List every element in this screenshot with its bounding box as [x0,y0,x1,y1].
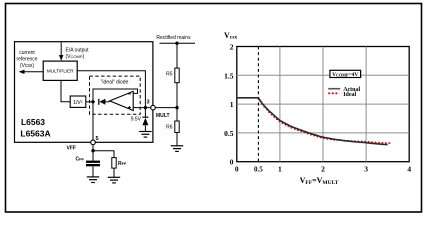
svg-text:RFF: RFF [118,161,127,167]
svg-text:L6563: L6563 [21,117,45,127]
svg-text:E/A output: E/A output [66,48,90,54]
wire node B to Rff [93,151,114,158]
svg-text:Vcsx: Vcsx [224,31,237,41]
svg-text:3: 3 [147,100,150,106]
zener D2 9.5V clamp [142,108,148,132]
op-amp U1 [110,91,134,110]
svg-text:Ideal: Ideal [343,92,356,98]
chart annotation box Vcomp=4V [330,70,361,78]
svg-text:5: 5 [96,136,99,142]
ground under zener [139,132,151,138]
svg-text:0: 0 [230,158,234,167]
svg-text:(Vcsx): (Vcsx) [20,63,35,69]
svg-text:2: 2 [321,165,325,174]
label L6563 [21,117,45,127]
resistor R5 [175,68,179,83]
svg-text:R6: R6 [166,125,173,131]
svg-text:L6563A: L6563A [20,129,50,139]
svg-text:0.5: 0.5 [224,129,234,138]
wire VFF pin to node B [92,145,94,161]
svg-text:(VCOMP): (VCOMP) [66,54,85,60]
chart x axis labels [235,165,411,174]
wire MULT pin to divider node [155,107,177,109]
node MULT internal junction [144,106,147,109]
label E/A output (VCOMP) [66,48,90,61]
wire R5 to node [176,83,178,108]
wire multiplier bottom to 1/V2 block [61,80,70,101]
wire rail to R5 [176,43,178,68]
svg-text:0: 0 [235,165,239,174]
chart y axis title Vcsx [224,31,237,41]
ground under R6 [171,146,183,152]
wire node to R6 [176,108,178,121]
svg-text:1/V²: 1/V² [73,100,83,106]
label R6 [166,125,173,131]
wire Cff to ground [92,166,94,177]
chart gridlines [237,47,409,162]
chart x axis title VFF=VMULT [300,176,339,186]
pin number 5 [96,136,99,142]
svg-text:"ideal" diode: "ideal" diode [101,80,129,86]
chart plot frame [237,47,409,162]
svg-text:4: 4 [407,165,411,174]
svg-text:1: 1 [230,100,234,109]
label Rff [118,161,127,167]
svg-text:VFF=VMULT: VFF=VMULT [300,176,339,186]
ground under Cff [87,177,99,183]
svg-text:VFF: VFF [67,146,76,152]
label 9.5V [131,117,142,123]
label R5 [166,72,173,78]
label Cff [76,157,85,163]
label Rectified mains [156,35,191,41]
chart actual curve [237,98,388,145]
chart y axis labels [224,43,234,167]
svg-text:1: 1 [278,165,282,174]
svg-text:3: 3 [364,165,368,174]
resistor Rff [112,158,116,169]
svg-text:current: current [19,50,35,56]
node mains junction [175,42,178,45]
svg-text:MULT: MULT [156,113,170,119]
wire R6 to ground [176,133,178,146]
wire current-reference output with arrow [19,70,44,74]
pin 3 MULT circle [151,105,156,110]
wire rectified mains rail [160,42,196,44]
node B junction [91,149,94,152]
wire node A down to VFF pin [92,102,94,140]
multiplier block [43,61,77,80]
pin 5 VFF circle [91,140,96,145]
node A junction [91,100,94,103]
capacitor Cff [86,161,100,167]
1/V2 block [70,96,86,107]
label VFF [67,146,76,152]
svg-text:CFF: CFF [76,157,85,163]
chart ideal curve red dots [257,97,390,144]
ground under Rff [108,177,120,183]
wire op-amp noninverting input to MULT pin [133,107,153,109]
wire feedback loop node A to op-amp inverting input [93,89,138,102]
wire multiplier right output to MULT node [77,71,145,106]
label ideal diode [101,80,129,86]
svg-text:9.5V: 9.5V [131,117,142,123]
svg-text:reference: reference [16,57,37,63]
diode D1 ideal-diode output [99,99,110,105]
svg-text:VCOMP=4V: VCOMP=4V [332,72,358,78]
svg-text:MULTIPLIER: MULTIPLIER [47,69,74,74]
wire Rff to ground [113,168,115,177]
wire 1/V2 to node A [86,101,93,103]
pin number 3 [147,100,150,106]
label current reference (Vcsx) [16,50,37,69]
IC body L6563 [15,42,153,143]
label L6563A [20,129,50,139]
svg-text:0.5: 0.5 [254,166,263,174]
legend ideal [328,92,356,98]
legend actual [328,87,360,93]
label MULT [156,113,170,119]
svg-text:R5: R5 [166,72,173,78]
chart dashed guide at x=0.5 [257,47,259,162]
wire E/A output into multiplier with arrow [59,42,63,60]
ideal diode dashed box [90,76,141,114]
svg-text:2: 2 [230,43,234,52]
svg-text:Rectified mains: Rectified mains [156,35,191,41]
node divider junction [175,106,178,109]
svg-text:1.5: 1.5 [224,71,234,80]
resistor R6 [175,121,179,133]
